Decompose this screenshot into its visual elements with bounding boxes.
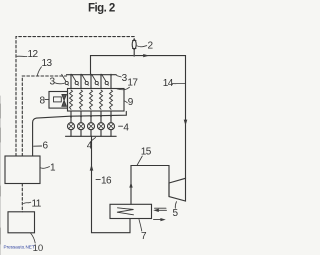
bottom header bbox=[66, 135, 117, 137]
steam pipe 15 bbox=[131, 166, 169, 205]
label 17 bbox=[117, 87, 130, 90]
dashed control line 12 (controller 1 to valve 2) bbox=[16, 37, 134, 156]
label 5 bbox=[175, 202, 176, 209]
svg-text:17: 17 bbox=[127, 78, 138, 89]
gas inlet arrow bbox=[155, 208, 167, 210]
label 12 bbox=[17, 55, 27, 57]
fan box 8 bbox=[49, 92, 68, 109]
label 2 bbox=[137, 46, 147, 47]
flow arrow right on top line bbox=[143, 54, 149, 57]
flow arrow up on pipe 15 bbox=[129, 182, 132, 188]
gas outlet arrow bbox=[154, 219, 164, 221]
switch bus 3 bbox=[67, 74, 117, 76]
wires injectors to header bbox=[71, 130, 111, 137]
turbine 5 bbox=[169, 178, 186, 201]
svg-text:13: 13 bbox=[42, 58, 53, 69]
injector C bbox=[88, 123, 95, 130]
flow arrow down on right line bbox=[184, 120, 188, 126]
label 10 bbox=[31, 233, 36, 243]
label 4 below bbox=[91, 137, 96, 141]
label 4 right bbox=[119, 125, 123, 127]
switch blades bbox=[62, 74, 109, 85]
main steam line (top) bbox=[91, 56, 186, 179]
switch pivot circles bbox=[65, 81, 108, 84]
heating coil a bbox=[70, 90, 73, 109]
dashed control line 13 (controller 1 to switches 3) bbox=[22, 76, 66, 156]
svg-text:16: 16 bbox=[101, 176, 112, 187]
heating coil b bbox=[80, 90, 83, 109]
controller box 1 bbox=[5, 156, 40, 184]
label 8 bbox=[45, 99, 49, 101]
exchanger coil bbox=[117, 208, 134, 215]
label 15 bbox=[137, 156, 142, 165]
feed line 16 bbox=[92, 136, 131, 232]
actuator in box 8 bbox=[54, 97, 62, 102]
evaporator block 9 bbox=[68, 89, 125, 112]
injector A bbox=[68, 123, 75, 130]
junction dots on bus bbox=[70, 74, 112, 76]
svg-text:15: 15 bbox=[141, 147, 152, 158]
label 14 bbox=[172, 82, 185, 85]
label 11 bbox=[24, 202, 31, 203]
sense line 6 (controller 1 to injector header) bbox=[33, 111, 127, 156]
svg-text:14: 14 bbox=[163, 78, 174, 89]
left edge scan artifact bbox=[0, 96, 1, 255]
flow arrow up on line 16 bbox=[90, 164, 94, 170]
heating coil d bbox=[100, 90, 103, 109]
label 3 left bbox=[55, 83, 65, 84]
control unit box 10 bbox=[8, 212, 35, 233]
svg-text:Pressauto.NET: Pressauto.NET bbox=[4, 244, 35, 249]
dashed link 11 (controller 1 to unit 10) bbox=[21, 184, 23, 212]
svg-text:11: 11 bbox=[32, 199, 42, 210]
switch wires to evaporator bbox=[71, 75, 111, 89]
label 7 bbox=[139, 219, 142, 231]
label 9 bbox=[124, 101, 127, 103]
heating coil c bbox=[90, 90, 93, 109]
injector E bbox=[108, 123, 115, 130]
label 3 right bbox=[117, 75, 122, 77]
label 16 bbox=[96, 178, 100, 180]
svg-text:Fig. 2: Fig. 2 bbox=[88, 2, 115, 14]
heat exchanger 7 bbox=[110, 204, 152, 218]
label 13 bbox=[37, 67, 41, 75]
injector B bbox=[78, 123, 85, 130]
fan rotor bbox=[62, 94, 67, 106]
injector D bbox=[98, 123, 105, 130]
wires block 9 to injectors bbox=[71, 111, 111, 122]
valve 2 bbox=[133, 49, 135, 55]
label 1 bbox=[40, 167, 49, 169]
label 6 bbox=[34, 145, 42, 147]
junction dots on line 6 bbox=[70, 115, 112, 118]
svg-text:12: 12 bbox=[28, 49, 39, 60]
heating coil e bbox=[110, 90, 113, 109]
